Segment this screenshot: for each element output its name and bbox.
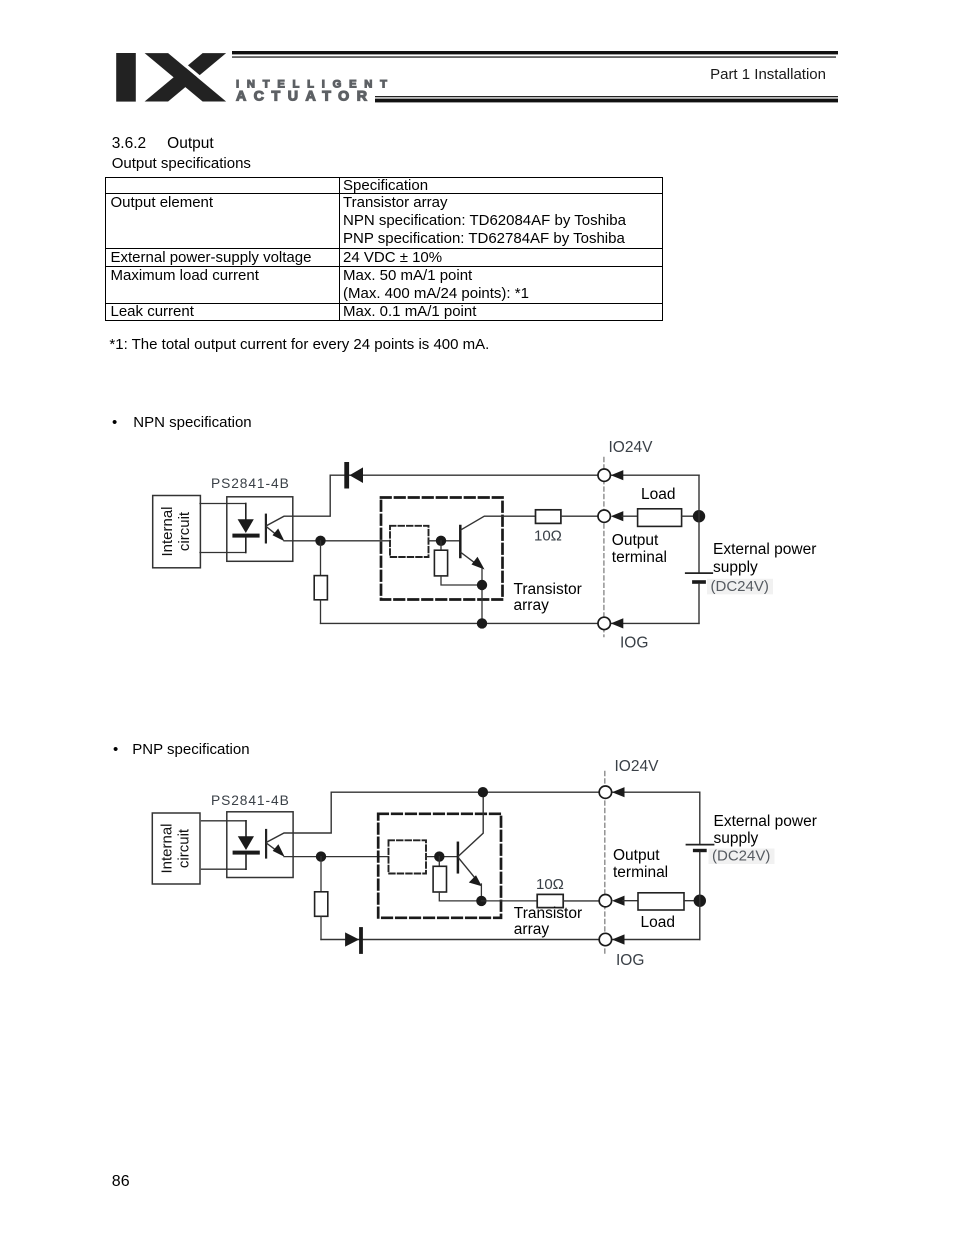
- bullet: NPN specification: [112, 415, 252, 430]
- line: Output specifications: [112, 156, 251, 171]
- svg-text:IO24V: IO24V: [615, 758, 660, 775]
- wire small box to base: [429, 540, 460, 542]
- node: emitter to IOG dot: [477, 618, 487, 628]
- emitter wire to junction: [284, 540, 390, 542]
- arrow into IO24V terminal: [612, 787, 625, 797]
- svg-text:Internal: Internal: [158, 823, 175, 873]
- wire base resistor to emitter node: [441, 576, 482, 585]
- node: emitter/base junction dot: [316, 851, 326, 861]
- battery BT1 external supply: [686, 573, 712, 584]
- IO24V terminal circle: [599, 786, 611, 798]
- header logo IX: [0, 0, 954, 120]
- supply rail right vertical (lower): [698, 584, 700, 624]
- emitter wire to junction: [284, 856, 389, 858]
- optocoupler U2 PS2841-4B box: [227, 812, 293, 878]
- wire base resistor to collector node: [439, 892, 481, 901]
- supply rail right vertical (upper): [699, 792, 701, 844]
- dashed terminal net line (NPN): [603, 458, 605, 637]
- footnote *1: [109, 337, 489, 352]
- wire base dot to base resistor: [440, 541, 442, 550]
- internal circuit box: [152, 813, 200, 884]
- transistor Q1 (NPN): [460, 516, 535, 569]
- input block small dashed box: [389, 840, 427, 873]
- LED of optocoupler: [233, 821, 260, 869]
- IOG bottom wire: [321, 939, 700, 941]
- svg-text:IOG: IOG: [616, 952, 644, 969]
- arrow into IO24V terminal: [611, 470, 624, 480]
- node: emitter to 24V rail dot: [478, 787, 488, 797]
- label Load (PNP): [641, 915, 675, 931]
- header bottom thick rule: [375, 99, 838, 103]
- header bottom thin rule: [375, 96, 838, 97]
- wire internal box to LED anode: [200, 503, 246, 505]
- svg-text:(DC24V): (DC24V): [711, 578, 769, 595]
- IOG bottom wire: [321, 622, 700, 624]
- svg-text:Internal: Internal: [159, 506, 176, 556]
- arrow into output terminal: [611, 511, 624, 521]
- label External power supply (PNP): [714, 813, 817, 847]
- wire emitter down: [481, 569, 483, 624]
- bullet: PNP specification: [113, 742, 250, 757]
- node: base junction dot: [434, 851, 444, 861]
- phototransistor of optocoupler: [266, 475, 330, 542]
- transistor array dashed box: [381, 498, 503, 600]
- header top thin rule: [232, 56, 836, 57]
- wire internal box to LED anode: [202, 820, 247, 822]
- label (DC24V): [707, 578, 773, 595]
- label Output terminal (PNP): [613, 848, 668, 881]
- wire junction down to resistor: [320, 857, 322, 892]
- label (DC24V): [709, 848, 775, 865]
- IO24V terminal circle: [598, 469, 610, 481]
- node: emitter junction dot: [477, 580, 487, 590]
- wire 10 ohm to output terminal: [563, 900, 599, 902]
- svg-text:10Ω: 10Ω: [536, 876, 564, 893]
- wire resistor to IOG line: [320, 916, 322, 939]
- resistor (pull-up): [315, 892, 328, 917]
- base resistor: [434, 550, 447, 576]
- IOG terminal circle: [599, 933, 611, 945]
- arrow into IOG terminal: [612, 934, 625, 944]
- svg-text:PS2841-4B: PS2841-4B: [211, 793, 290, 808]
- logo letter X: [145, 53, 232, 101]
- wire collector node to 10 ohm: [481, 900, 537, 902]
- diode D1 on 24V rail: [344, 462, 363, 489]
- supply rail right vertical (lower): [699, 852, 701, 939]
- node: collector junction dot: [476, 896, 486, 906]
- wire resistor to IOG line: [320, 600, 322, 624]
- output terminal circle (mid): [599, 895, 611, 907]
- wire internal box to LED cathode: [202, 868, 247, 870]
- resistor (pull-down): [314, 576, 327, 600]
- wire base dot to base resistor: [438, 857, 440, 867]
- base resistor: [433, 866, 446, 892]
- optocoupler U1 PS2841-4B box: [227, 497, 293, 562]
- top wire from collector corner to supply: [330, 474, 699, 476]
- dashed terminal net line (PNP): [604, 772, 606, 957]
- IOG terminal circle: [598, 617, 610, 629]
- top wire 24V rail: [331, 791, 700, 793]
- transistor array dashed box: [378, 814, 501, 918]
- label Output terminal (NPN): [612, 533, 667, 566]
- label Load (NPN): [641, 487, 675, 503]
- svg-text:(DC24V): (DC24V): [712, 848, 770, 865]
- supply rail right vertical (upper): [698, 475, 700, 573]
- wire load to supply rail: [684, 900, 700, 902]
- load resistor box: [638, 509, 682, 527]
- diode D2 on IOG wire: [345, 927, 363, 954]
- load resistor box: [638, 893, 684, 910]
- phototransistor of optocoupler: [266, 792, 331, 857]
- wire small box to base: [426, 856, 457, 858]
- section heading 3.6.2 Output: [112, 136, 214, 152]
- LED of optocoupler: [232, 504, 259, 553]
- output terminal circle (mid): [598, 510, 610, 522]
- svg-text:PS2841-4B: PS2841-4B: [211, 476, 290, 491]
- label External power supply (NPN): [713, 541, 816, 577]
- wire collector down to output node: [480, 884, 482, 901]
- page number: [112, 1174, 130, 1190]
- node: emitter/base junction dot: [315, 536, 325, 546]
- label Transistor array (PNP): [514, 906, 582, 937]
- svg-text:10Ω: 10Ω: [534, 527, 562, 544]
- wire 10 ohm to output terminal: [561, 515, 599, 517]
- resistor 10 ohm: [537, 894, 563, 907]
- svg-text:IOG: IOG: [620, 635, 648, 652]
- specification table: [105, 177, 663, 322]
- transistor Q2 (PNP): [458, 792, 483, 886]
- node: load/supply junction dot: [694, 895, 706, 907]
- internal circuit box: [153, 496, 201, 568]
- wire arrow to load: [622, 515, 638, 517]
- input block small dashed box: [390, 526, 429, 557]
- node: base junction dot: [436, 536, 446, 546]
- wire internal box to LED cathode: [200, 552, 246, 554]
- wire load to supply rail: [682, 515, 699, 517]
- header top thick rule: [232, 51, 838, 54]
- svg-text:circuit: circuit: [176, 511, 193, 551]
- label Transistor array (NPN): [514, 582, 582, 613]
- node: load/supply junction dot: [693, 510, 705, 522]
- resistor 10 ohm: [536, 510, 561, 524]
- svg-text:IO24V: IO24V: [609, 439, 654, 456]
- logo letter I: [116, 53, 136, 102]
- wire junction down to resistor: [320, 541, 322, 576]
- battery BT2 external supply: [687, 845, 714, 853]
- arrow into IOG terminal: [611, 618, 624, 628]
- arrow into output terminal: [612, 896, 625, 906]
- wire arrow to load: [623, 900, 638, 902]
- svg-text:circuit: circuit: [175, 828, 192, 868]
